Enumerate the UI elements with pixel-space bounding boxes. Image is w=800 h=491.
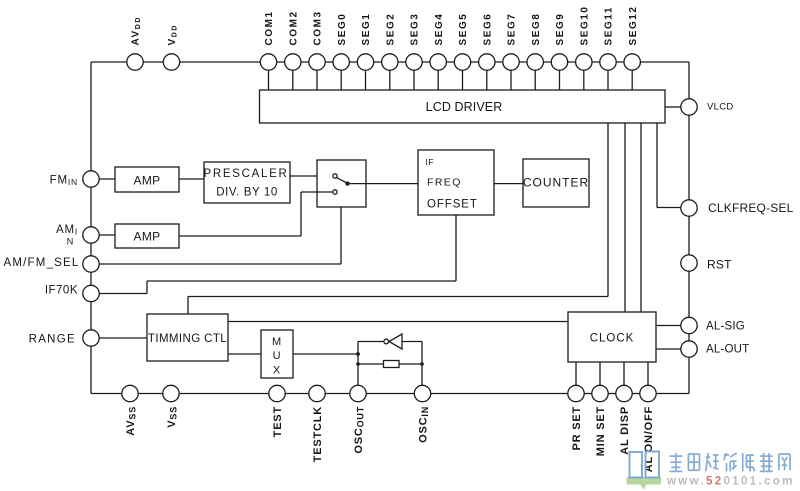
svg-text:SEG5: SEG5 — [458, 13, 469, 46]
svg-text:SEG8: SEG8 — [531, 13, 542, 46]
svg-text:AMI: AMI — [56, 224, 78, 237]
svg-text:TEST: TEST — [272, 406, 284, 437]
svg-text:SEG4: SEG4 — [434, 13, 445, 46]
svg-text:N: N — [67, 237, 74, 247]
svg-text:AL-OUT: AL-OUT — [706, 344, 749, 356]
svg-text:SEG0: SEG0 — [337, 13, 348, 46]
svg-text:X: X — [273, 365, 281, 377]
svg-text:SEG9: SEG9 — [555, 13, 566, 46]
svg-text:SEG7: SEG7 — [507, 13, 518, 46]
svg-text:RST: RST — [707, 258, 732, 272]
svg-text:FMIN: FMIN — [50, 175, 78, 188]
svg-text:OSCOUT: OSCOUT — [353, 406, 366, 454]
svg-text:U: U — [273, 350, 282, 362]
svg-text:IF: IF — [426, 157, 435, 167]
svg-text:SEG2: SEG2 — [386, 13, 397, 46]
svg-text:M: M — [272, 336, 282, 348]
svg-text:AL-SIG: AL-SIG — [706, 321, 745, 333]
svg-text:IF70K: IF70K — [45, 285, 78, 297]
svg-text:DIV. BY 10: DIV. BY 10 — [216, 187, 278, 199]
svg-text:VSS: VSS — [166, 406, 179, 428]
svg-text:AVSS: AVSS — [125, 406, 138, 436]
svg-text:COM2: COM2 — [289, 10, 300, 45]
svg-text:AM/FM_SEL: AM/FM_SEL — [4, 257, 80, 269]
svg-text:AMP: AMP — [134, 230, 161, 244]
svg-text:www.520101.com: www.520101.com — [666, 476, 795, 488]
svg-text:LCD DRIVER: LCD DRIVER — [426, 100, 503, 114]
svg-text:COM3: COM3 — [313, 10, 324, 45]
svg-text:COUNTER: COUNTER — [523, 176, 589, 190]
svg-text:VLCD: VLCD — [707, 102, 734, 113]
svg-text:CLOCK: CLOCK — [590, 333, 635, 345]
svg-text:SEG12: SEG12 — [628, 6, 639, 46]
svg-text:SEG10: SEG10 — [580, 6, 591, 46]
svg-text:AMP: AMP — [134, 174, 161, 188]
svg-text:SEG6: SEG6 — [483, 13, 494, 46]
svg-text:FREQ: FREQ — [427, 177, 462, 189]
svg-text:SEG1: SEG1 — [361, 13, 372, 46]
svg-text:COM1: COM1 — [264, 10, 275, 45]
svg-text:AL DISP: AL DISP — [619, 406, 631, 455]
svg-text:CLKFREQ-SEL: CLKFREQ-SEL — [708, 201, 794, 215]
svg-text:SEG11: SEG11 — [604, 6, 615, 45]
svg-text:TIMMING CTL: TIMMING CTL — [148, 333, 227, 345]
svg-text:PRESCALER: PRESCALER — [204, 168, 289, 180]
svg-text:MIN SET: MIN SET — [595, 406, 607, 456]
svg-text:TESTCLK: TESTCLK — [312, 406, 324, 462]
svg-text:OSCIN: OSCIN — [418, 406, 431, 443]
svg-text:PR SET: PR SET — [571, 406, 583, 451]
svg-text:RANGE: RANGE — [29, 334, 76, 346]
svg-text:SEG3: SEG3 — [410, 13, 421, 46]
svg-text:OFFSET: OFFSET — [427, 199, 478, 211]
